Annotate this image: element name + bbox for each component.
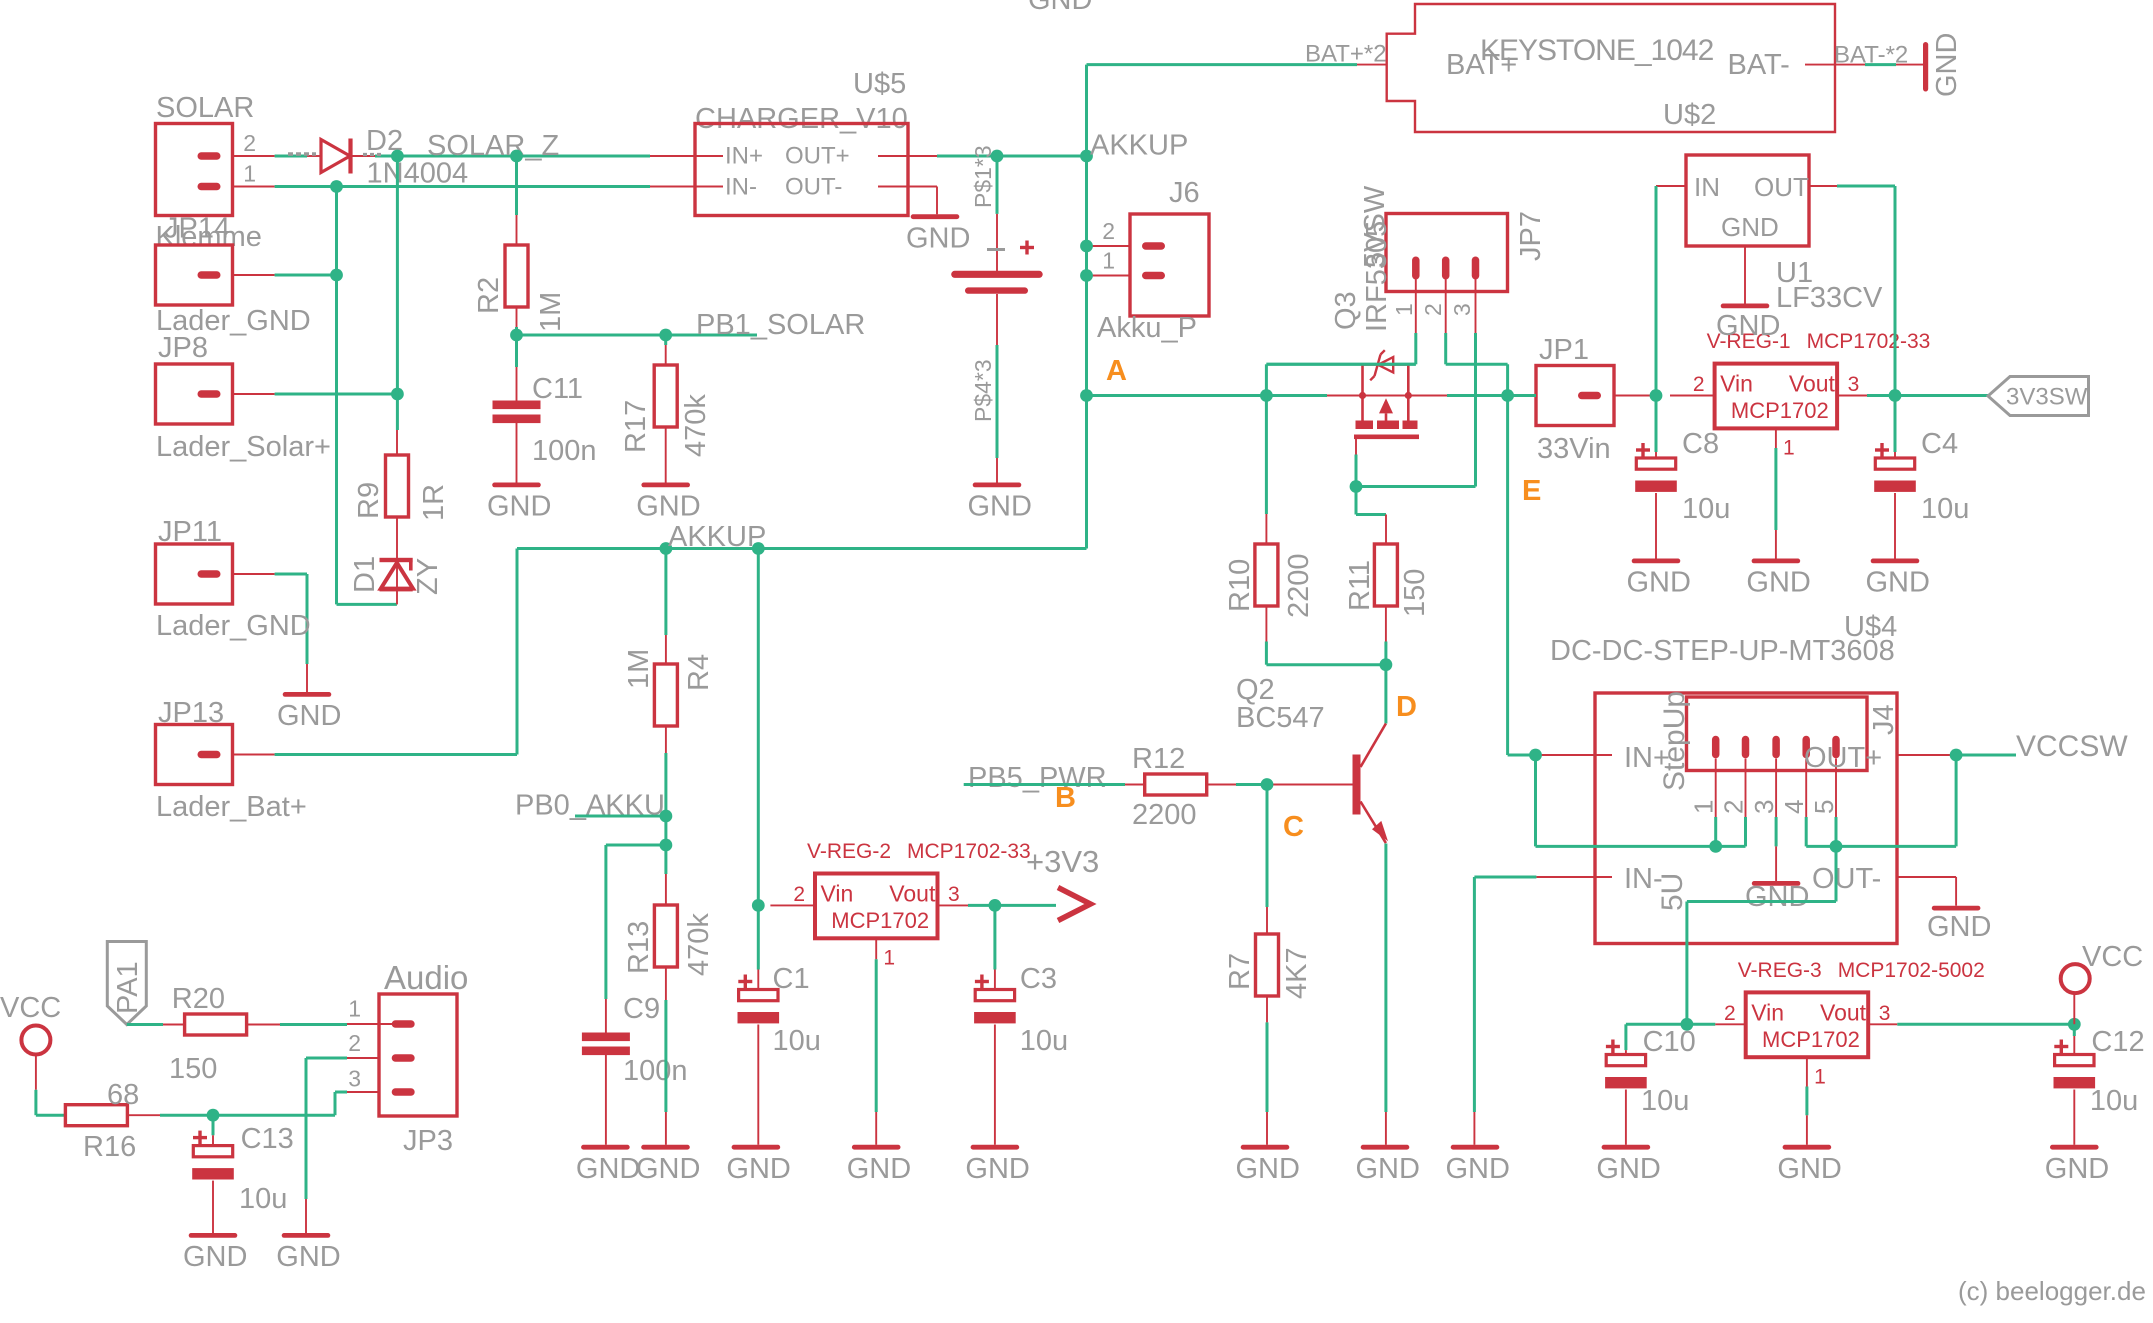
svg-text:CHARGER_V10: CHARGER_V10: [695, 103, 908, 135]
svg-text:3: 3: [948, 883, 960, 906]
svg-text:R17: R17: [620, 400, 652, 453]
svg-text:GND: GND: [906, 222, 970, 254]
svg-text:3: 3: [348, 1066, 361, 1092]
svg-text:C10: C10: [1643, 1026, 1696, 1058]
svg-text:Vin: Vin: [821, 881, 854, 907]
svg-text:GND: GND: [487, 491, 551, 523]
svg-text:GND: GND: [1446, 1153, 1510, 1185]
svg-text:1: 1: [1814, 1065, 1826, 1088]
svg-text:R10: R10: [1224, 559, 1256, 612]
svg-text:Vout: Vout: [889, 881, 936, 907]
svg-text:BAT+: BAT+: [1446, 49, 1517, 81]
svg-text:Lader_Bat+: Lader_Bat+: [156, 791, 307, 823]
svg-text:GND: GND: [1927, 911, 1991, 943]
svg-text:10u: 10u: [1641, 1085, 1689, 1117]
svg-text:3: 3: [1749, 800, 1779, 814]
svg-text:Vout: Vout: [1820, 999, 1867, 1025]
svg-text:3: 3: [1449, 303, 1475, 316]
svg-text:D: D: [1396, 691, 1417, 723]
svg-text:LF33CV: LF33CV: [1776, 282, 1883, 314]
svg-text:Vin: Vin: [1751, 999, 1784, 1025]
svg-text:MCP1702-33: MCP1702-33: [907, 840, 1031, 863]
svg-text:2: 2: [1693, 373, 1705, 396]
svg-text:C11: C11: [532, 373, 583, 405]
svg-text:C1: C1: [773, 963, 810, 995]
svg-text:GND: GND: [1028, 0, 1092, 16]
svg-text:3: 3: [1848, 373, 1860, 396]
svg-text:1: 1: [243, 161, 256, 187]
svg-text:GND: GND: [1777, 1153, 1841, 1185]
svg-text:1: 1: [1689, 800, 1719, 814]
svg-text:JP7: JP7: [1515, 211, 1547, 261]
svg-text:IN+: IN+: [1624, 742, 1670, 774]
svg-text:V-REG-3: V-REG-3: [1738, 959, 1822, 982]
svg-text:C: C: [1283, 811, 1304, 843]
svg-text:R13: R13: [623, 921, 655, 974]
svg-text:PA1: PA1: [112, 961, 144, 1014]
svg-text:2200: 2200: [1132, 799, 1197, 831]
svg-text:2: 2: [793, 883, 805, 906]
svg-text:Vin: Vin: [1720, 371, 1753, 397]
svg-text:P$1*3: P$1*3: [970, 145, 996, 208]
svg-text:MCP1702-5002: MCP1702-5002: [1838, 959, 1985, 982]
svg-text:GND: GND: [1236, 1153, 1300, 1185]
svg-text:68: 68: [107, 1079, 139, 1111]
svg-text:BC547: BC547: [1236, 702, 1325, 734]
svg-text:33Vin: 33Vin: [1537, 433, 1611, 465]
svg-text:C8: C8: [1682, 428, 1719, 460]
svg-text:150: 150: [169, 1053, 217, 1085]
svg-text:10u: 10u: [1921, 493, 1969, 525]
svg-text:1M: 1M: [535, 292, 567, 332]
svg-text:Lader_GND: Lader_GND: [156, 610, 311, 642]
svg-text:3V3SW: 3V3SW: [2006, 384, 2088, 411]
svg-text:GND: GND: [1356, 1153, 1420, 1185]
svg-text:GND: GND: [1931, 33, 1963, 97]
svg-text:GND: GND: [1596, 1153, 1660, 1185]
svg-text:SOLAR: SOLAR: [156, 92, 254, 124]
svg-text:R7: R7: [1224, 953, 1256, 990]
svg-text:GND: GND: [726, 1153, 790, 1185]
svg-text:Q3: Q3: [1330, 291, 1362, 330]
svg-text:DC-DC-STEP-UP-MT3608: DC-DC-STEP-UP-MT3608: [1550, 635, 1895, 667]
svg-text:Lader_Solar+: Lader_Solar+: [156, 431, 331, 463]
svg-text:2200: 2200: [1283, 553, 1315, 618]
svg-text:MCP1702-33: MCP1702-33: [1807, 330, 1931, 353]
svg-text:GND: GND: [276, 1241, 340, 1273]
svg-text:B: B: [1055, 782, 1076, 814]
svg-text:PB5_PWR: PB5_PWR: [968, 762, 1107, 794]
svg-text:MCP1702: MCP1702: [1762, 1027, 1860, 1052]
svg-text:AKKUP: AKKUP: [1090, 130, 1188, 162]
svg-text:GND: GND: [1746, 567, 1810, 599]
svg-text:OUT+: OUT+: [785, 143, 850, 170]
svg-text:C4: C4: [1921, 428, 1958, 460]
svg-text:10u: 10u: [1682, 493, 1730, 525]
svg-text:2: 2: [1420, 303, 1446, 316]
svg-text:R11: R11: [1344, 560, 1376, 611]
svg-text:4: 4: [1779, 800, 1809, 814]
svg-text:StepUp: StepUp: [1658, 691, 1691, 791]
svg-text:IN-: IN-: [1624, 863, 1663, 895]
svg-text:VCC: VCC: [0, 992, 61, 1024]
svg-text:OUT+: OUT+: [1804, 742, 1882, 774]
svg-text:V-REG-2: V-REG-2: [807, 840, 891, 863]
svg-text:Audio: Audio: [384, 959, 468, 996]
svg-text:E: E: [1522, 475, 1541, 507]
svg-text:Vout: Vout: [1789, 371, 1836, 397]
svg-text:10u: 10u: [239, 1183, 287, 1215]
svg-text:VCC: VCC: [2082, 941, 2143, 973]
svg-text:IN: IN: [1694, 172, 1720, 202]
svg-text:VCCSW: VCCSW: [2016, 730, 2128, 763]
svg-text:GND: GND: [2045, 1153, 2109, 1185]
svg-text:BAT-: BAT-: [1728, 49, 1790, 81]
svg-text:OUT: OUT: [1754, 172, 1809, 202]
svg-text:D1: D1: [349, 556, 381, 593]
svg-text:C13: C13: [241, 1123, 294, 1155]
svg-text:U$5: U$5: [853, 68, 906, 100]
svg-text:+3V3: +3V3: [1026, 844, 1099, 879]
svg-text:(c) beelogger.de: (c) beelogger.de: [1958, 1276, 2146, 1306]
svg-text:R2: R2: [473, 277, 505, 314]
svg-text:2: 2: [243, 130, 256, 156]
svg-text:1: 1: [1391, 303, 1417, 316]
svg-text:GND: GND: [847, 1153, 911, 1185]
svg-text:AKKUP: AKKUP: [668, 521, 766, 553]
svg-text:470k: 470k: [683, 913, 715, 976]
svg-text:R12: R12: [1132, 743, 1185, 775]
svg-text:4K7: 4K7: [1281, 947, 1313, 999]
svg-text:2: 2: [348, 1030, 361, 1056]
svg-text:3: 3: [1879, 1002, 1891, 1025]
svg-text:ZY: ZY: [412, 558, 444, 595]
svg-text:J4: J4: [1868, 704, 1900, 735]
svg-text:GND: GND: [1866, 567, 1930, 599]
svg-text:R16: R16: [83, 1131, 136, 1163]
svg-text:R9: R9: [353, 482, 385, 519]
svg-text:R20: R20: [172, 983, 225, 1015]
svg-text:SOLAR_Z: SOLAR_Z: [427, 130, 559, 162]
svg-text:PB1_SOLAR: PB1_SOLAR: [696, 309, 865, 341]
svg-text:1R: 1R: [418, 484, 450, 521]
svg-text:JP8: JP8: [158, 332, 208, 364]
svg-text:R4: R4: [683, 654, 715, 691]
svg-text:PB0_AKKU: PB0_AKKU: [515, 790, 665, 822]
svg-text:MCP1702: MCP1702: [1731, 398, 1829, 423]
svg-text:10u: 10u: [1020, 1025, 1068, 1057]
svg-text:100n: 100n: [623, 1055, 688, 1087]
svg-text:1M: 1M: [623, 649, 655, 689]
svg-text:1N4004: 1N4004: [367, 158, 469, 190]
svg-text:JP3: JP3: [403, 1125, 453, 1157]
svg-text:C3: C3: [1020, 963, 1057, 995]
svg-text:GND: GND: [636, 1153, 700, 1185]
svg-text:MCP1702: MCP1702: [831, 908, 929, 933]
svg-text:10u: 10u: [773, 1025, 821, 1057]
svg-text:A: A: [1106, 355, 1127, 387]
svg-text:GND: GND: [183, 1241, 247, 1273]
svg-text:IN-: IN-: [725, 174, 757, 201]
svg-text:2: 2: [1102, 218, 1115, 244]
svg-text:GND: GND: [636, 491, 700, 523]
svg-text:C12: C12: [2091, 1026, 2144, 1058]
svg-text:Akku_P: Akku_P: [1097, 312, 1197, 344]
svg-text:2: 2: [1724, 1002, 1736, 1025]
svg-text:1: 1: [883, 947, 895, 970]
svg-text:GND: GND: [968, 491, 1032, 523]
svg-text:P$4*3: P$4*3: [970, 359, 996, 422]
svg-text:OUT-: OUT-: [1812, 863, 1881, 895]
svg-text:J6: J6: [1169, 177, 1200, 209]
svg-text:470k: 470k: [680, 394, 712, 457]
svg-text:GND: GND: [277, 700, 341, 732]
svg-text:Klemme: Klemme: [156, 221, 262, 253]
svg-text:1: 1: [1783, 437, 1795, 460]
svg-text:1: 1: [348, 996, 361, 1022]
svg-text:C9: C9: [623, 993, 660, 1025]
svg-text:BAT+*2: BAT+*2: [1305, 41, 1387, 68]
svg-text:1: 1: [1102, 248, 1115, 274]
svg-text:GND: GND: [1627, 567, 1691, 599]
svg-text:GND: GND: [965, 1153, 1029, 1185]
svg-text:5VSW: 5VSW: [1359, 185, 1391, 268]
svg-text:OUT-: OUT-: [785, 174, 842, 201]
svg-text:GND: GND: [1716, 310, 1780, 342]
svg-text:IN+: IN+: [725, 143, 763, 170]
svg-text:100n: 100n: [532, 435, 597, 467]
svg-text:GND: GND: [1745, 881, 1809, 913]
svg-text:U$2: U$2: [1663, 99, 1716, 131]
svg-text:JP1: JP1: [1539, 334, 1589, 366]
svg-text:10u: 10u: [2090, 1085, 2138, 1117]
svg-text:GND: GND: [1721, 212, 1779, 242]
svg-text:5: 5: [1809, 800, 1839, 814]
svg-text:GND: GND: [576, 1153, 640, 1185]
svg-text:150: 150: [1399, 569, 1431, 617]
svg-text:2: 2: [1719, 800, 1749, 814]
